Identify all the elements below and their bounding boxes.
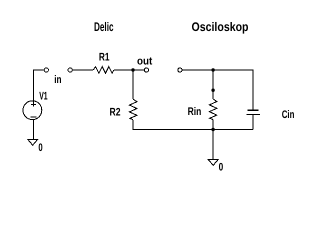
- terminal osc input (open circle): [178, 68, 182, 72]
- svg-text:R1: R1: [99, 51, 110, 63]
- capacitor Cin (two plates): [246, 110, 260, 114]
- svg-text:Cin: Cin: [282, 109, 295, 121]
- wire R2 bottom corner to Cin bottom (bottom rail): [133, 120, 253, 130]
- svg-text:0: 0: [38, 142, 42, 154]
- wire junction down to ground (right): [212, 130, 214, 160]
- junction node at Rin column top: [211, 68, 214, 71]
- svg-text:R2: R2: [110, 106, 121, 118]
- resistor Rin (vertical zigzag): [209, 99, 216, 120]
- resistor R2 (vertical zigzag): [130, 99, 137, 120]
- svg-text:Delic: Delic: [94, 20, 114, 34]
- svg-text:out: out: [137, 55, 153, 67]
- wire Rin bottom stub: [212, 120, 214, 130]
- wire out node down to R2: [132, 70, 134, 99]
- svg-text:Rin: Rin: [188, 106, 202, 118]
- svg-text:in: in: [54, 74, 62, 86]
- wire Rin top stub: [212, 90, 214, 99]
- wire junction down to Rin pin: [212, 70, 214, 90]
- ground symbol 0 (right): [208, 160, 218, 166]
- wire out node to out terminal: [133, 69, 144, 71]
- wire Cin bottom plate to bottom rail: [252, 115, 254, 130]
- terminal in (open circle): [44, 68, 48, 72]
- ground symbol 0 under V1: [28, 140, 38, 146]
- resistor R1 (horizontal zigzag): [93, 67, 114, 74]
- svg-text:V1: V1: [39, 91, 47, 103]
- wire R1 to out node: [114, 69, 133, 71]
- terminal out (open circle): [144, 68, 148, 72]
- wire from in terminal left and down to V1 top: [33, 70, 44, 101]
- wire V1 bottom to ground: [32, 119, 34, 139]
- wire osc terminal right and down to Cin top: [183, 70, 254, 110]
- junction node at Rin top pin: [211, 89, 214, 92]
- junction node out: [131, 68, 134, 71]
- wire in2 terminal to R1: [73, 69, 94, 71]
- svg-text:Osciloskop: Osciloskop: [192, 20, 249, 34]
- junction node bottom rail at Rin: [211, 128, 214, 131]
- svg-text:0: 0: [219, 161, 224, 173]
- terminal in2 (open circle, left of R1): [68, 68, 72, 72]
- voltage source V1 (circle with plus and minus): [23, 101, 42, 120]
